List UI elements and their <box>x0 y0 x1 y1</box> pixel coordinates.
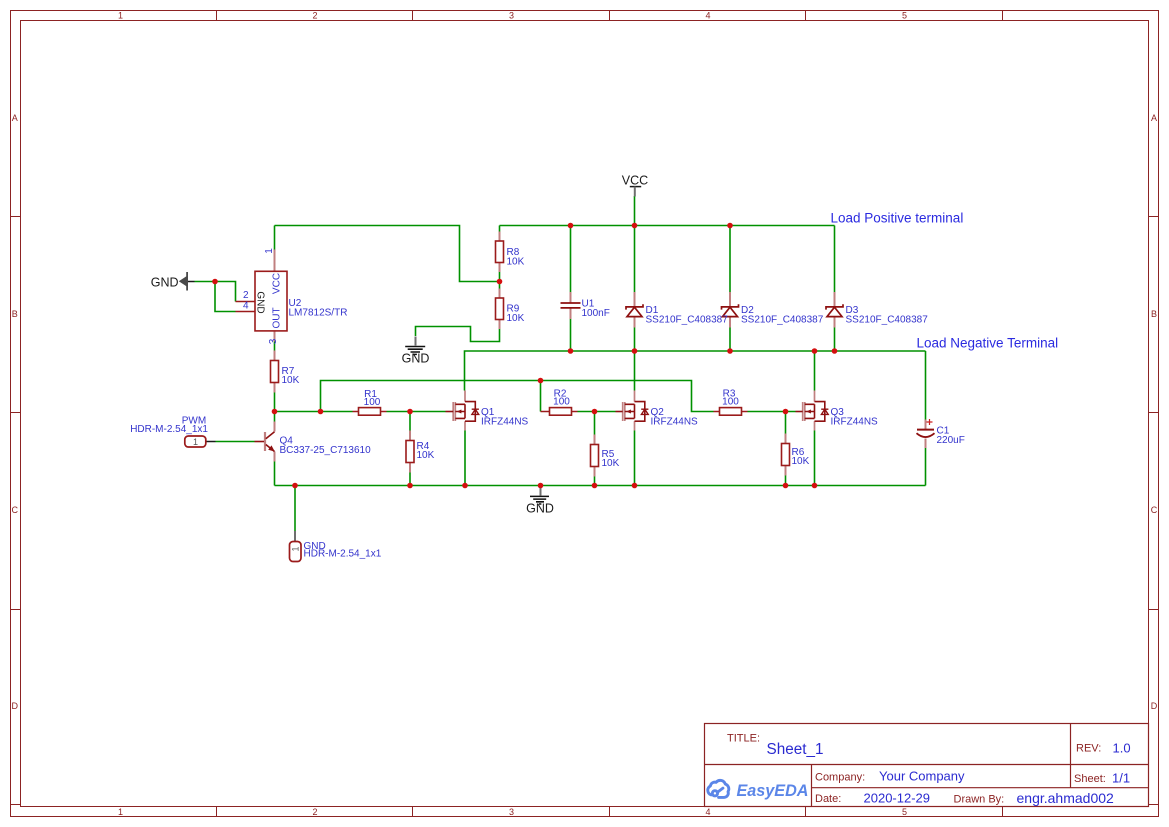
svg-text:engr.ahmad002: engr.ahmad002 <box>1017 790 1115 806</box>
svg-text:B: B <box>1151 309 1157 319</box>
svg-text:10K: 10K <box>507 313 525 324</box>
svg-text:VCC: VCC <box>622 174 648 188</box>
svg-text:4: 4 <box>705 807 710 817</box>
svg-text:HDR-M-2.54_1x1: HDR-M-2.54_1x1 <box>304 549 382 560</box>
svg-text:C: C <box>1151 505 1158 515</box>
svg-text:1.0: 1.0 <box>1113 741 1131 756</box>
svg-text:IRFZ44NS: IRFZ44NS <box>481 417 529 428</box>
svg-text:2: 2 <box>243 290 249 301</box>
svg-text:100: 100 <box>553 397 570 408</box>
svg-text:D: D <box>12 701 19 711</box>
svg-text:HDR-M-2.54_1x1: HDR-M-2.54_1x1 <box>130 424 208 435</box>
svg-text:10K: 10K <box>602 458 620 469</box>
svg-text:D: D <box>1151 701 1158 711</box>
svg-text:3: 3 <box>509 807 514 817</box>
svg-text:A: A <box>12 113 18 123</box>
svg-text:2020-12-29: 2020-12-29 <box>864 791 931 806</box>
svg-text:3: 3 <box>268 338 279 344</box>
svg-text:10K: 10K <box>282 375 300 386</box>
svg-text:2: 2 <box>312 807 317 817</box>
svg-text:100nF: 100nF <box>582 308 610 319</box>
svg-text:Company:: Company: <box>815 772 865 784</box>
svg-text:100: 100 <box>722 397 739 408</box>
svg-text:B: B <box>12 309 18 319</box>
svg-text:2: 2 <box>312 11 317 21</box>
svg-text:EasyEDA: EasyEDA <box>737 782 809 800</box>
svg-text:SS210F_C408387: SS210F_C408387 <box>646 315 729 326</box>
svg-text:OUT: OUT <box>272 307 283 328</box>
svg-text:1: 1 <box>291 546 301 551</box>
svg-text:GND: GND <box>526 501 554 515</box>
svg-text:10K: 10K <box>417 450 435 461</box>
svg-text:1/1: 1/1 <box>1112 771 1130 786</box>
svg-text:C: C <box>12 505 19 515</box>
svg-text:VCC: VCC <box>272 273 283 294</box>
svg-text:4: 4 <box>243 301 249 312</box>
svg-text:10K: 10K <box>792 456 810 467</box>
svg-text:100: 100 <box>364 397 381 408</box>
svg-text:3: 3 <box>509 11 514 21</box>
svg-text:SS210F_C408387: SS210F_C408387 <box>741 315 824 326</box>
svg-text:5: 5 <box>902 11 907 21</box>
svg-text:BC337-25_C713610: BC337-25_C713610 <box>280 445 372 456</box>
svg-text:A: A <box>1151 113 1157 123</box>
svg-text:4: 4 <box>705 11 710 21</box>
svg-text:1: 1 <box>118 11 123 21</box>
svg-text:TITLE:: TITLE: <box>727 733 760 745</box>
svg-text:Your Company: Your Company <box>879 769 965 784</box>
svg-text:GND: GND <box>151 275 179 289</box>
svg-text:IRFZ44NS: IRFZ44NS <box>651 417 699 428</box>
svg-text:Load Positive terminal: Load Positive terminal <box>831 211 964 226</box>
svg-text:Sheet_1: Sheet_1 <box>767 741 824 758</box>
svg-text:Sheet:: Sheet: <box>1074 773 1106 785</box>
svg-text:1: 1 <box>193 437 198 447</box>
svg-text:1: 1 <box>264 248 275 254</box>
svg-text:REV:: REV: <box>1076 743 1101 755</box>
svg-text:GND: GND <box>255 291 266 313</box>
svg-text:5: 5 <box>902 807 907 817</box>
svg-text:220uF: 220uF <box>937 435 965 446</box>
svg-text:LM7812S/TR: LM7812S/TR <box>289 308 348 319</box>
svg-text:IRFZ44NS: IRFZ44NS <box>831 417 879 428</box>
svg-text:Drawn By:: Drawn By: <box>954 794 1005 806</box>
svg-text:GND: GND <box>402 351 430 365</box>
svg-text:1: 1 <box>118 807 123 817</box>
svg-text:Date:: Date: <box>815 793 841 805</box>
svg-text:10K: 10K <box>507 257 525 268</box>
svg-text:Load Negative Terminal: Load Negative Terminal <box>917 336 1059 351</box>
svg-text:SS210F_C408387: SS210F_C408387 <box>846 315 929 326</box>
